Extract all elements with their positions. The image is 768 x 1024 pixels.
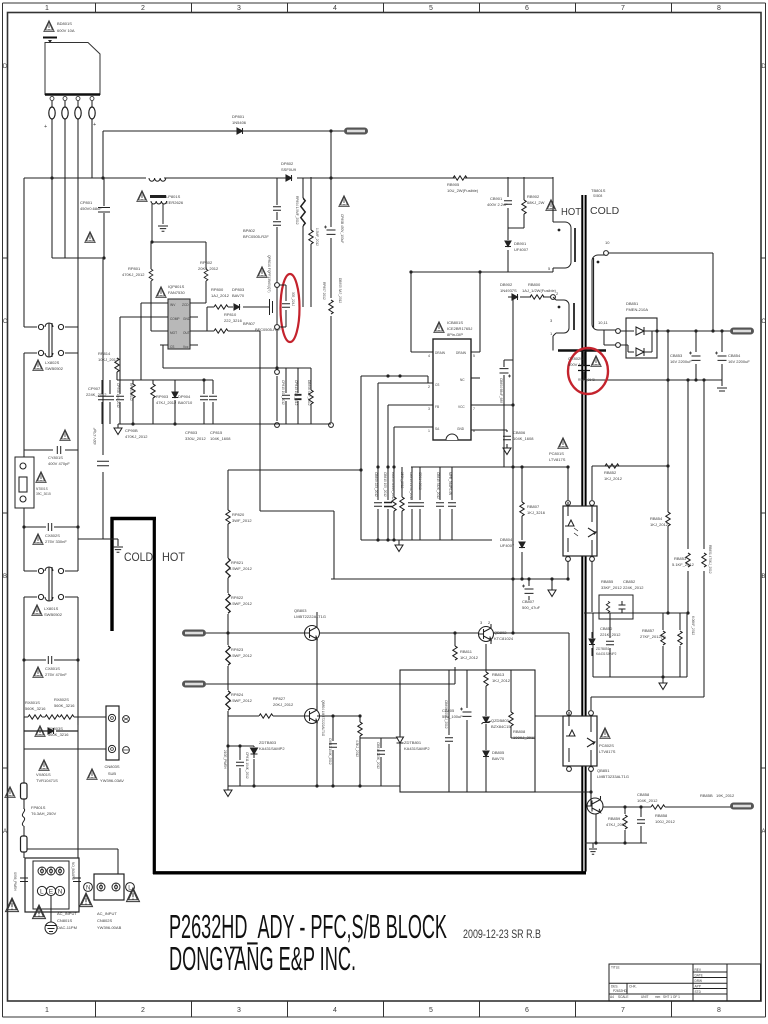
svg-text:ICE2BR1765J: ICE2BR1765J — [447, 326, 472, 331]
svg-text:RB905: RB905 — [447, 182, 460, 187]
resistor RP822 — [226, 594, 230, 614]
svg-text:68KJ_2W: 68KJ_2W — [527, 200, 545, 205]
svg-text:LX801S: LX801S — [44, 606, 59, 611]
connector CN803S — [106, 706, 119, 760]
svg-text:CB809 223_2012: CB809 223_2012 — [374, 472, 378, 497]
wire VCC rail x513 — [512, 297, 514, 633]
bottom ruler ticks — [96, 1001, 672, 1017]
optocoupler PC802S — [563, 716, 597, 766]
capacitor CB814 — [419, 467, 421, 540]
capacitor CB809 — [377, 467, 379, 540]
ground — [551, 579, 553, 590]
ground — [117, 424, 119, 428]
wire aux rail x508 — [507, 177, 509, 272]
red circle 1 — [281, 274, 300, 342]
svg-text:1.5MF_2012: 1.5MF_2012 — [315, 228, 319, 246]
primary winding lower — [553, 297, 574, 336]
svg-text:N: N — [86, 886, 90, 892]
svg-text:NO_BOARD: NO_BOARD — [71, 862, 75, 881]
svg-text:HOT: HOT — [162, 550, 186, 564]
svg-text:FP801S: FP801S — [31, 805, 46, 810]
svg-text:B: B — [3, 574, 7, 580]
svg-text:GND: GND — [183, 317, 191, 321]
resistor RB807 — [521, 467, 523, 536]
resistor RP814 — [116, 372, 118, 380]
svg-text:400V 470pF: 400V 470pF — [93, 428, 97, 445]
resistor RB811 — [454, 633, 456, 646]
wire CS — [163, 345, 168, 368]
resistor RP821 — [226, 558, 230, 578]
capacitor CP801 — [103, 178, 105, 258]
svg-text:221K_2012: 221K_2012 — [600, 632, 621, 637]
svg-text:560K_3216: 560K_3216 — [25, 706, 46, 711]
wire MOSFET source down — [276, 329, 278, 421]
warning triangles bottom — [6, 898, 19, 912]
svg-text:RB853: RB853 — [674, 556, 687, 561]
svg-text:470KJ_2012: 470KJ_2012 — [125, 434, 148, 439]
TITLE BLOCK — [609, 964, 761, 1001]
svg-text:DP802: DP802 — [281, 161, 294, 166]
wire vcc feed y297 — [508, 296, 551, 298]
resistor RB853 — [687, 380, 689, 613]
wire bus y613 — [584, 612, 687, 614]
svg-text:1.5WF_2012: 1.5WF_2012 — [229, 601, 253, 606]
svg-text:SCALE: SCALE — [618, 995, 628, 999]
svg-text:RB859: RB859 — [608, 816, 621, 821]
connector flag — [730, 328, 754, 335]
resistor RB852 — [605, 464, 619, 468]
wire pin10 rail — [608, 253, 713, 331]
svg-text:CB804 68uF_689: CB804 68uF_689 — [499, 378, 503, 403]
wire gnd bus y424 — [118, 423, 331, 425]
svg-text:BFC0505-R2F: BFC0505-R2F — [243, 234, 269, 239]
svg-text:COLD: COLD — [124, 550, 153, 564]
wire rails to connector — [23, 717, 25, 858]
svg-text:UF4007: UF4007 — [514, 247, 529, 252]
wire secondary lower pins — [604, 330, 616, 345]
svg-text:RB857: RB857 — [642, 628, 655, 633]
resistor RB859 — [624, 807, 626, 843]
svg-text:RP801: RP801 — [128, 266, 141, 271]
svg-text:S906_PWEH: S906_PWEH — [13, 872, 17, 891]
svg-text:UF4007: UF4007 — [500, 543, 515, 548]
svg-text:CN802S: CN802S — [97, 918, 112, 923]
svg-text:560K_3216: 560K_3216 — [54, 703, 75, 708]
zener ZDB803 — [485, 686, 487, 716]
svg-text:CY801S: CY801S — [48, 455, 63, 460]
svg-text:210E_PWEH: 210E_PWEH — [223, 750, 227, 769]
svg-text:100KJ_2012: 100KJ_2012 — [513, 735, 536, 740]
long vertical x668 — [667, 331, 669, 613]
svg-text:CB850: CB850 — [600, 626, 613, 631]
svg-text:RP822: RP822 — [231, 595, 244, 600]
snubber BP802 — [276, 178, 278, 285]
svg-text:DATE: DATE — [695, 974, 703, 978]
ruler letters — [3, 64, 767, 835]
capacitor CP803 — [203, 380, 205, 424]
wire pin2 down — [64, 101, 66, 258]
svg-text:SWB0502: SWB0502 — [44, 612, 63, 617]
svg-text:RP807 2012: RP807 2012 — [322, 282, 326, 300]
capacitor CX802S row — [24, 526, 78, 528]
svg-text:2: 2 — [428, 385, 430, 389]
svg-text:8: 8 — [717, 1007, 721, 1014]
svg-text:D: D — [3, 64, 8, 70]
svg-text:YW396-00AB: YW396-00AB — [97, 925, 122, 930]
transistor QB804 — [305, 706, 320, 726]
svg-text:BA0710: BA0710 — [178, 400, 193, 405]
capacitor CB810 — [387, 467, 389, 540]
svg-text:CB810 223K_2012: CB810 223K_2012 — [376, 742, 380, 769]
optocoupler PC801S — [563, 506, 597, 556]
choke LX801S — [24, 567, 78, 601]
wire SA — [394, 427, 433, 467]
svg-text:450V0.68uF: 450V0.68uF — [80, 206, 102, 211]
pin 2 — [63, 97, 67, 101]
svg-text:2: 2 — [141, 1007, 145, 1014]
resistor RP805 — [310, 177, 312, 307]
svg-text:6: 6 — [525, 5, 529, 12]
svg-text:BP802: BP802 — [243, 228, 256, 233]
svg-text:DB901: DB901 — [514, 241, 527, 246]
svg-text:275V 330nF: 275V 330nF — [45, 539, 67, 544]
wire pin5 to DB901 rail — [508, 268, 553, 272]
svg-text:5.1KF_2012: 5.1KF_2012 — [672, 562, 695, 567]
primary winding upper — [553, 222, 575, 268]
svg-text:S0808: S0808 — [593, 194, 602, 198]
connector flag — [730, 803, 754, 810]
svg-text:39C_3015: 39C_3015 — [36, 492, 51, 496]
wire y697 — [591, 697, 704, 710]
svg-text:Vcc: Vcc — [183, 345, 189, 349]
wire startup chain x228 — [227, 470, 229, 716]
wire — [78, 716, 106, 718]
svg-text:8Pin-DIP: 8Pin-DIP — [447, 332, 463, 337]
rectifier DB851 — [626, 318, 657, 358]
svg-text:CHK.: CHK. — [629, 985, 637, 989]
wire — [587, 792, 591, 806]
svg-text:20KJ_2012: 20KJ_2012 — [273, 702, 294, 707]
IC IQP801S FAN7530 — [168, 299, 190, 349]
capacitor CB805 — [466, 670, 468, 792]
svg-text:DB804: DB804 — [500, 537, 513, 542]
wire aux y242 — [152, 241, 206, 243]
connector CN801S — [25, 858, 79, 912]
svg-text:DRAIN: DRAIN — [456, 351, 467, 355]
inductor LP801S — [149, 178, 167, 242]
svg-text:LP801S: LP801S — [166, 194, 181, 199]
wire — [102, 131, 104, 178]
wire QB803 emitter down — [316, 643, 318, 708]
choke LX802S — [24, 323, 78, 357]
transistor QP801S (MOSFET) — [268, 285, 277, 327]
wire — [103, 538, 118, 540]
wire 16V output — [657, 330, 731, 332]
svg-text:BZX84C15: BZX84C15 — [491, 724, 511, 729]
svg-text:QP801S FQPF13N60(QT): QP801S FQPF13N60(QT) — [267, 255, 271, 292]
svg-text:RB808: RB808 — [513, 729, 526, 734]
wire boost vertical x331 — [330, 178, 332, 422]
resistor RP827 — [259, 714, 273, 718]
svg-text:STD: STD — [695, 990, 702, 994]
diode DB804 — [521, 536, 523, 579]
svg-text:BP807: BP807 — [243, 321, 256, 326]
svg-text:SUB: SUB — [108, 771, 117, 776]
svg-text:4: 4 — [428, 354, 430, 358]
wire opto cold down — [591, 561, 593, 612]
svg-text:DP904: DP904 — [178, 394, 191, 399]
wire — [228, 746, 254, 786]
svg-text:CN803S: CN803S — [104, 764, 119, 769]
svg-text:CB810 105_2012: CB810 105_2012 — [383, 472, 387, 497]
wire FB — [388, 405, 433, 467]
svg-text:T6.3AH_250V: T6.3AH_250V — [31, 811, 56, 816]
resistor RP800 — [214, 305, 228, 309]
svg-text:1KJ_2012: 1KJ_2012 — [492, 678, 511, 683]
svg-text:RP802: RP802 — [200, 260, 213, 265]
svg-text:DP801: DP801 — [232, 114, 245, 119]
svg-text:QB851: QB851 — [597, 768, 610, 773]
svg-text:DP803: DP803 — [232, 287, 245, 292]
svg-text:PC802S: PC802S — [599, 743, 614, 748]
capacitor CY802S — [583, 352, 585, 380]
ruler numbers bottom — [45, 1007, 721, 1014]
resistor RP904 — [152, 380, 154, 424]
warning triangle — [44, 21, 54, 32]
svg-text:BD801S: BD801S — [57, 21, 72, 26]
secondary winding — [592, 255, 606, 330]
wire left rail B — [77, 327, 79, 725]
wire box bottom to QB851 — [535, 791, 591, 793]
svg-text:RX801S: RX801S — [25, 700, 40, 705]
svg-text:1N4937S: 1N4937S — [500, 288, 517, 293]
svg-text:CB815 332K_2012: CB815 332K_2012 — [436, 472, 440, 499]
svg-text:CP803: CP803 — [185, 430, 198, 435]
bridge rectifier BD801S — [45, 43, 100, 95]
svg-text:305_224J: 305_224J — [291, 292, 295, 306]
resistor RP903 — [132, 380, 134, 424]
resistor RB805 — [401, 467, 403, 540]
IC ICB801S — [433, 339, 471, 440]
svg-text:KA431SAMP2: KA431SAMP2 — [404, 746, 430, 751]
svg-text:16V 2200uF: 16V 2200uF — [728, 359, 750, 364]
pin 3 — [76, 97, 80, 101]
node junction pin2 — [551, 295, 556, 300]
svg-text:CB814 2012: CB814 2012 — [418, 472, 422, 490]
svg-text:CP90B: CP90B — [125, 428, 138, 433]
svg-text:RP903: RP903 — [156, 394, 169, 399]
wire QB802 base drop — [485, 644, 487, 670]
wire GND pin — [471, 430, 507, 448]
svg-text:NT801S: NT801S — [36, 487, 48, 491]
thermistor box N801S — [15, 457, 34, 508]
ground — [592, 843, 594, 848]
diode DB901 — [505, 241, 511, 247]
ground — [158, 226, 168, 231]
wire QB803 collector up — [316, 612, 318, 623]
connector flag — [344, 128, 368, 135]
svg-text:KA431SAMP2: KA431SAMP2 — [596, 652, 617, 656]
barrier left vertical — [110, 517, 113, 631]
node pin10 — [604, 251, 609, 256]
svg-text:A4: A4 — [610, 995, 614, 999]
svg-text:D: D — [761, 64, 766, 70]
svg-text:QB803: QB803 — [294, 608, 307, 613]
ruler numbers top — [45, 5, 721, 12]
svg-text:ZD7B851: ZD7B851 — [596, 647, 610, 651]
wire drain right — [471, 272, 480, 352]
svg-text:6.06KF_2012: 6.06KF_2012 — [691, 616, 695, 635]
svg-text:330U_2012: 330U_2012 — [185, 436, 206, 441]
svg-text:UNIT: UNIT — [641, 995, 648, 999]
capacitor CB810b — [380, 738, 382, 786]
svg-text:EER2626: EER2626 — [166, 200, 184, 205]
capacitor CB850 — [609, 613, 611, 677]
svg-text:5: 5 — [473, 354, 475, 358]
capacitor CB804 — [504, 360, 513, 467]
svg-text:RB854: RB854 — [650, 516, 663, 521]
capacitor CP815 — [212, 380, 214, 424]
capacitor CX801S row — [24, 659, 78, 661]
svg-text:LTV817S: LTV817S — [549, 457, 566, 462]
top ruler ticks — [96, 3, 672, 13]
node junction — [329, 129, 332, 132]
svg-text:RP814: RP814 — [98, 351, 111, 356]
svg-text:10: 10 — [605, 240, 610, 245]
wire — [24, 748, 106, 750]
barrier bottom horizontal — [153, 871, 586, 874]
terminal lugs — [49, 107, 95, 119]
svg-text:16V 2200uF: 16V 2200uF — [670, 359, 692, 364]
svg-text:5: 5 — [429, 5, 433, 12]
resistor RX802S — [45, 715, 59, 719]
resistor RB813 — [485, 670, 487, 672]
svg-text:TB801S: TB801S — [591, 188, 606, 193]
capacitor C8812 — [332, 716, 334, 786]
shunt ZDTB803 — [251, 748, 258, 758]
resistor RP804 — [302, 178, 304, 307]
svg-text:CB901: CB901 — [490, 196, 503, 201]
wire QB804 emitter down — [316, 726, 318, 786]
wire main rail y178 — [24, 177, 553, 179]
svg-text:1KJ_3216: 1KJ_3216 — [527, 510, 546, 515]
feedback box — [593, 613, 687, 677]
ground (cold side) — [117, 539, 119, 546]
svg-text:ZDTB803: ZDTB803 — [259, 740, 277, 745]
svg-text:RP827: RP827 — [273, 696, 286, 701]
zener ZD851 — [591, 632, 593, 656]
svg-text:DB902: DB902 — [500, 282, 513, 287]
resistor RP823 — [226, 646, 230, 666]
wire — [52, 178, 104, 258]
capacitor CP906 — [119, 380, 121, 424]
svg-text:400V 2.2nF: 400V 2.2nF — [487, 202, 508, 207]
svg-text:+: + — [44, 124, 47, 130]
wire CP801 down rail — [102, 258, 104, 539]
capacitor CB854 — [721, 331, 723, 380]
svg-text:1KJ_2012: 1KJ_2012 — [460, 655, 479, 660]
svg-text:500_47uF: 500_47uF — [522, 605, 541, 610]
svg-text:VCC: VCC — [458, 405, 465, 409]
svg-text:INV: INV — [170, 303, 176, 307]
svg-text:1AJ_1/2W(Fusible): 1AJ_1/2W(Fusible) — [522, 288, 557, 293]
svg-text:DB905 3A?_2012: DB905 3A?_2012 — [338, 278, 342, 303]
svg-text:CB853: CB853 — [670, 353, 683, 358]
wire INV — [141, 303, 160, 380]
svg-text:400V 1nF: 400V 1nF — [568, 362, 586, 367]
svg-text:PC801S: PC801S — [549, 451, 564, 456]
svg-text:SHT 1 OF 1: SHT 1 OF 1 — [663, 995, 680, 999]
resistor RB905 fusible — [453, 176, 467, 180]
svg-text:RP800: RP800 — [211, 287, 224, 292]
svg-text:B: B — [761, 574, 765, 580]
svg-text:L: L — [40, 889, 44, 896]
svg-text:LMBT3233ALT1G: LMBT3233ALT1G — [597, 774, 629, 779]
svg-text:4: 4 — [333, 1007, 337, 1014]
svg-text:MPR_564P0-4N: MPR_564P0-4N — [448, 472, 452, 496]
diode DP801 — [237, 128, 243, 134]
svg-text:RP824: RP824 — [231, 692, 244, 697]
svg-text:N: N — [58, 889, 63, 896]
resistor RB857 — [662, 613, 664, 677]
wire pin7 drop — [552, 177, 554, 222]
wire opto bottom hot — [567, 561, 569, 579]
svg-text:10U_2W(Fusible): 10U_2W(Fusible) — [447, 188, 479, 193]
resistor RB808 — [511, 670, 535, 738]
svg-text:KA431SAMP2: KA431SAMP2 — [259, 746, 285, 751]
svg-text:224K_2012: 224K_2012 — [86, 392, 107, 397]
svg-text:10,11: 10,11 — [598, 320, 608, 325]
ground — [721, 380, 723, 386]
resistor RP802 — [198, 242, 206, 303]
wire y633 — [206, 632, 479, 634]
wire bus y467 — [228, 469, 361, 471]
capacitor CB813 — [411, 467, 413, 540]
wire feedback y466 — [592, 466, 668, 500]
capacitor CB859 — [640, 807, 642, 843]
wire opto top hot — [567, 467, 569, 500]
connector flag PWR-ON — [182, 630, 206, 637]
wire y579 — [331, 578, 568, 580]
svg-text:KTC81024: KTC81024 — [494, 636, 514, 641]
diode DB805 — [485, 724, 487, 750]
svg-text:3: 3 — [428, 407, 430, 411]
svg-text:TITLE: TITLE — [611, 966, 620, 970]
svg-text:1N5406: 1N5406 — [232, 120, 247, 125]
side ruler ticks — [3, 258, 766, 768]
wire y684 — [206, 667, 455, 684]
capacitor CB852 — [619, 601, 626, 613]
filter rect — [599, 595, 633, 619]
resistor RX801S — [24, 716, 45, 718]
transistor QB851 — [587, 796, 603, 814]
svg-text:C8812 104K_2012: C8812 104K_2012 — [328, 738, 332, 765]
svg-text:47KJ_2012: 47KJ_2012 — [156, 400, 177, 405]
barrier core double vertical — [582, 195, 585, 872]
capacitor CY801S row — [24, 449, 78, 451]
svg-text:RX802S: RX802S — [54, 697, 69, 702]
wire VCC — [471, 404, 513, 406]
wire y806 — [603, 806, 731, 808]
diode DP904 — [174, 380, 176, 424]
svg-text:27KF_2012(?): 27KF_2012(?) — [640, 634, 666, 639]
wire left rail A — [23, 178, 25, 770]
svg-text:4.3KJ_2012: 4.3KJ_2012 — [355, 740, 359, 757]
transformer bottom bracket — [558, 349, 606, 352]
svg-text:AC_INPUT: AC_INPUT — [97, 911, 117, 916]
svg-text:3: 3 — [237, 5, 241, 12]
svg-text:REV: REV — [695, 968, 702, 972]
